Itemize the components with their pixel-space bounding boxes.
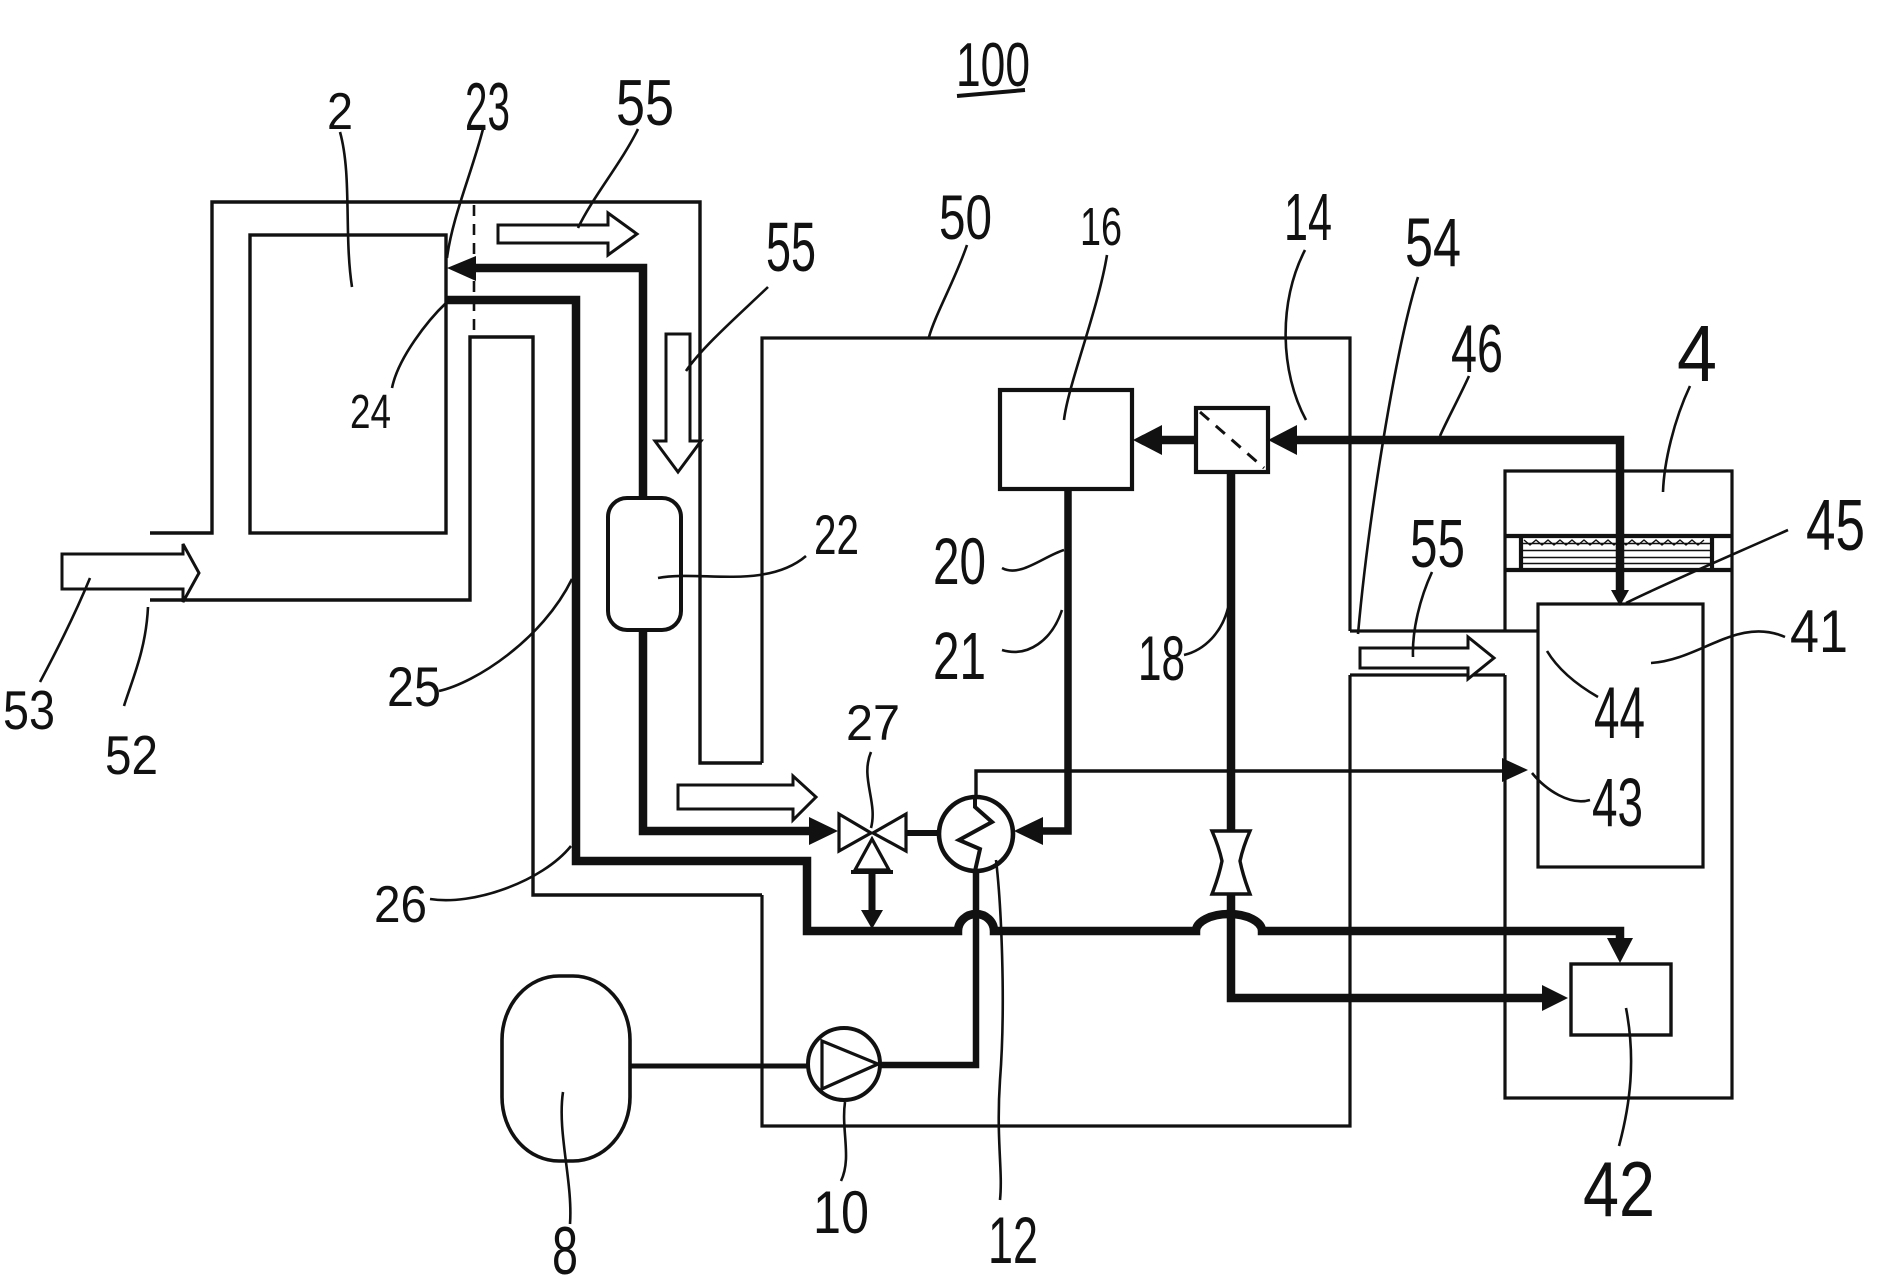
heat exchanger 12 [939, 797, 1013, 871]
leader line for 55 second [686, 287, 768, 371]
svg-text:25: 25 [387, 655, 441, 718]
housing 4 outline [1505, 471, 1732, 1098]
three-way valve 27 [839, 814, 906, 870]
leader line for 53 [40, 578, 90, 682]
leader line for 50 [929, 245, 967, 337]
pump discharge pipe (to 12 bottom) [880, 871, 976, 1065]
pipe from 22 top to battery (wire with arrow 23) [474, 268, 643, 498]
svg-text:12: 12 [988, 1203, 1038, 1277]
inlet flow arrow 53 [62, 544, 199, 602]
svg-text:45: 45 [1806, 486, 1865, 566]
pump suction pipe (tank 8 to pump 10) [630, 1064, 810, 1069]
svg-text:50: 50 [939, 183, 992, 253]
leader line for 54 [1358, 277, 1418, 634]
leader line for 25 [439, 579, 572, 691]
flow arrow 55 (top of housing 2) [498, 213, 637, 255]
valve 27 down arrow [869, 874, 876, 912]
housing 2 outline [150, 202, 762, 763]
leader line for 44 [1547, 651, 1598, 697]
heat exchanger 45 (hatched core) [1505, 536, 1731, 570]
leader line for 20 [1002, 550, 1064, 571]
leader line for 10 [841, 1102, 846, 1181]
svg-text:4: 4 [1677, 309, 1717, 398]
pipe 46 (thick, from 41 top up and left into 14 and 16) [1162, 440, 1620, 598]
leader line for 27 [867, 752, 872, 828]
label 100 [956, 31, 1030, 100]
leader line for 18 [1184, 608, 1228, 655]
svg-text:55: 55 [616, 66, 674, 139]
svg-text:8: 8 [552, 1213, 578, 1278]
svg-text:18: 18 [1138, 624, 1185, 694]
leader line for 16 [1064, 255, 1107, 420]
leader line for 8 [562, 1092, 571, 1224]
restrictor valve 18 [1212, 831, 1250, 894]
pipe from 22 bottom into valve 27 [643, 630, 812, 831]
dashed partition 23 [473, 205, 476, 331]
leader line for 43 [1532, 773, 1590, 801]
flow arrow 55 (vertical, in channel) [655, 334, 701, 472]
pipe 18 (thick vertical from 14 through restrictor) [1231, 472, 1546, 998]
component 42 [1571, 964, 1671, 1035]
inner unit 41 [1538, 604, 1703, 867]
pipe 20/21 (from 16 bottom down, arrow into 12) [1040, 489, 1068, 831]
svg-text:21: 21 [933, 619, 986, 694]
pipe valve 27 to heat exchanger 12 [906, 830, 941, 836]
svg-text:20: 20 [933, 524, 986, 598]
svg-text:55: 55 [1410, 506, 1465, 582]
leader line for 12 [996, 860, 1003, 1200]
svg-text:41: 41 [1790, 598, 1848, 665]
svg-text:26: 26 [374, 876, 427, 934]
component 16 [1000, 390, 1132, 489]
leader line for 21 [1002, 610, 1062, 652]
svg-text:46: 46 [1451, 311, 1503, 387]
pipe 25 [150, 337, 762, 895]
pipe 43 (thin, from 12 top right into 41) [976, 771, 1506, 797]
svg-text:27: 27 [846, 695, 900, 751]
tank 8 [502, 976, 630, 1161]
leader line for 14 [1286, 250, 1306, 420]
pump 10 [808, 1028, 880, 1100]
leader line for 2 [340, 132, 352, 287]
svg-text:52: 52 [105, 724, 158, 786]
svg-text:16: 16 [1080, 197, 1122, 257]
flow arrow 55 (into port 44) [1360, 637, 1494, 679]
valve 14 (box with dashed diagonal) [1196, 408, 1268, 472]
svg-text:54: 54 [1405, 204, 1461, 281]
duct wall to housing 4 (port 44) [1350, 631, 1538, 675]
leader line for 41 [1651, 631, 1785, 663]
pipe 26 (thick: from 24 right edge, down, right, down, wavy to 42) [446, 300, 1620, 942]
svg-text:44: 44 [1594, 673, 1645, 754]
svg-text:53: 53 [3, 679, 55, 741]
svg-text:2: 2 [327, 83, 353, 141]
leader line for 55 right [1413, 572, 1432, 657]
leader line for 26 [430, 846, 571, 900]
flow arrow (lower left, 55 family) [678, 776, 816, 820]
leader line for 24 [392, 303, 446, 388]
svg-text:24: 24 [350, 386, 391, 439]
enclosure 50 outline [762, 338, 1350, 1126]
svg-text:55: 55 [766, 208, 816, 286]
leader line for 52 [124, 607, 148, 706]
leader line for 23 [447, 129, 483, 258]
svg-text:43: 43 [1592, 764, 1643, 841]
svg-text:23: 23 [465, 69, 510, 145]
svg-text:10: 10 [813, 1179, 869, 1246]
svg-text:22: 22 [814, 503, 859, 566]
leader line for 22 [658, 556, 806, 578]
leader line for 46 [1440, 376, 1469, 436]
leader line for 42 [1619, 1008, 1631, 1146]
leader line for 55 top [578, 129, 638, 228]
accumulator 22 (capsule) [608, 498, 681, 630]
svg-text:42: 42 [1583, 1145, 1655, 1233]
leader line for 45 [1626, 530, 1788, 603]
leader line for 4 [1663, 386, 1690, 492]
svg-text:14: 14 [1284, 180, 1332, 255]
battery box 24 [250, 235, 446, 533]
